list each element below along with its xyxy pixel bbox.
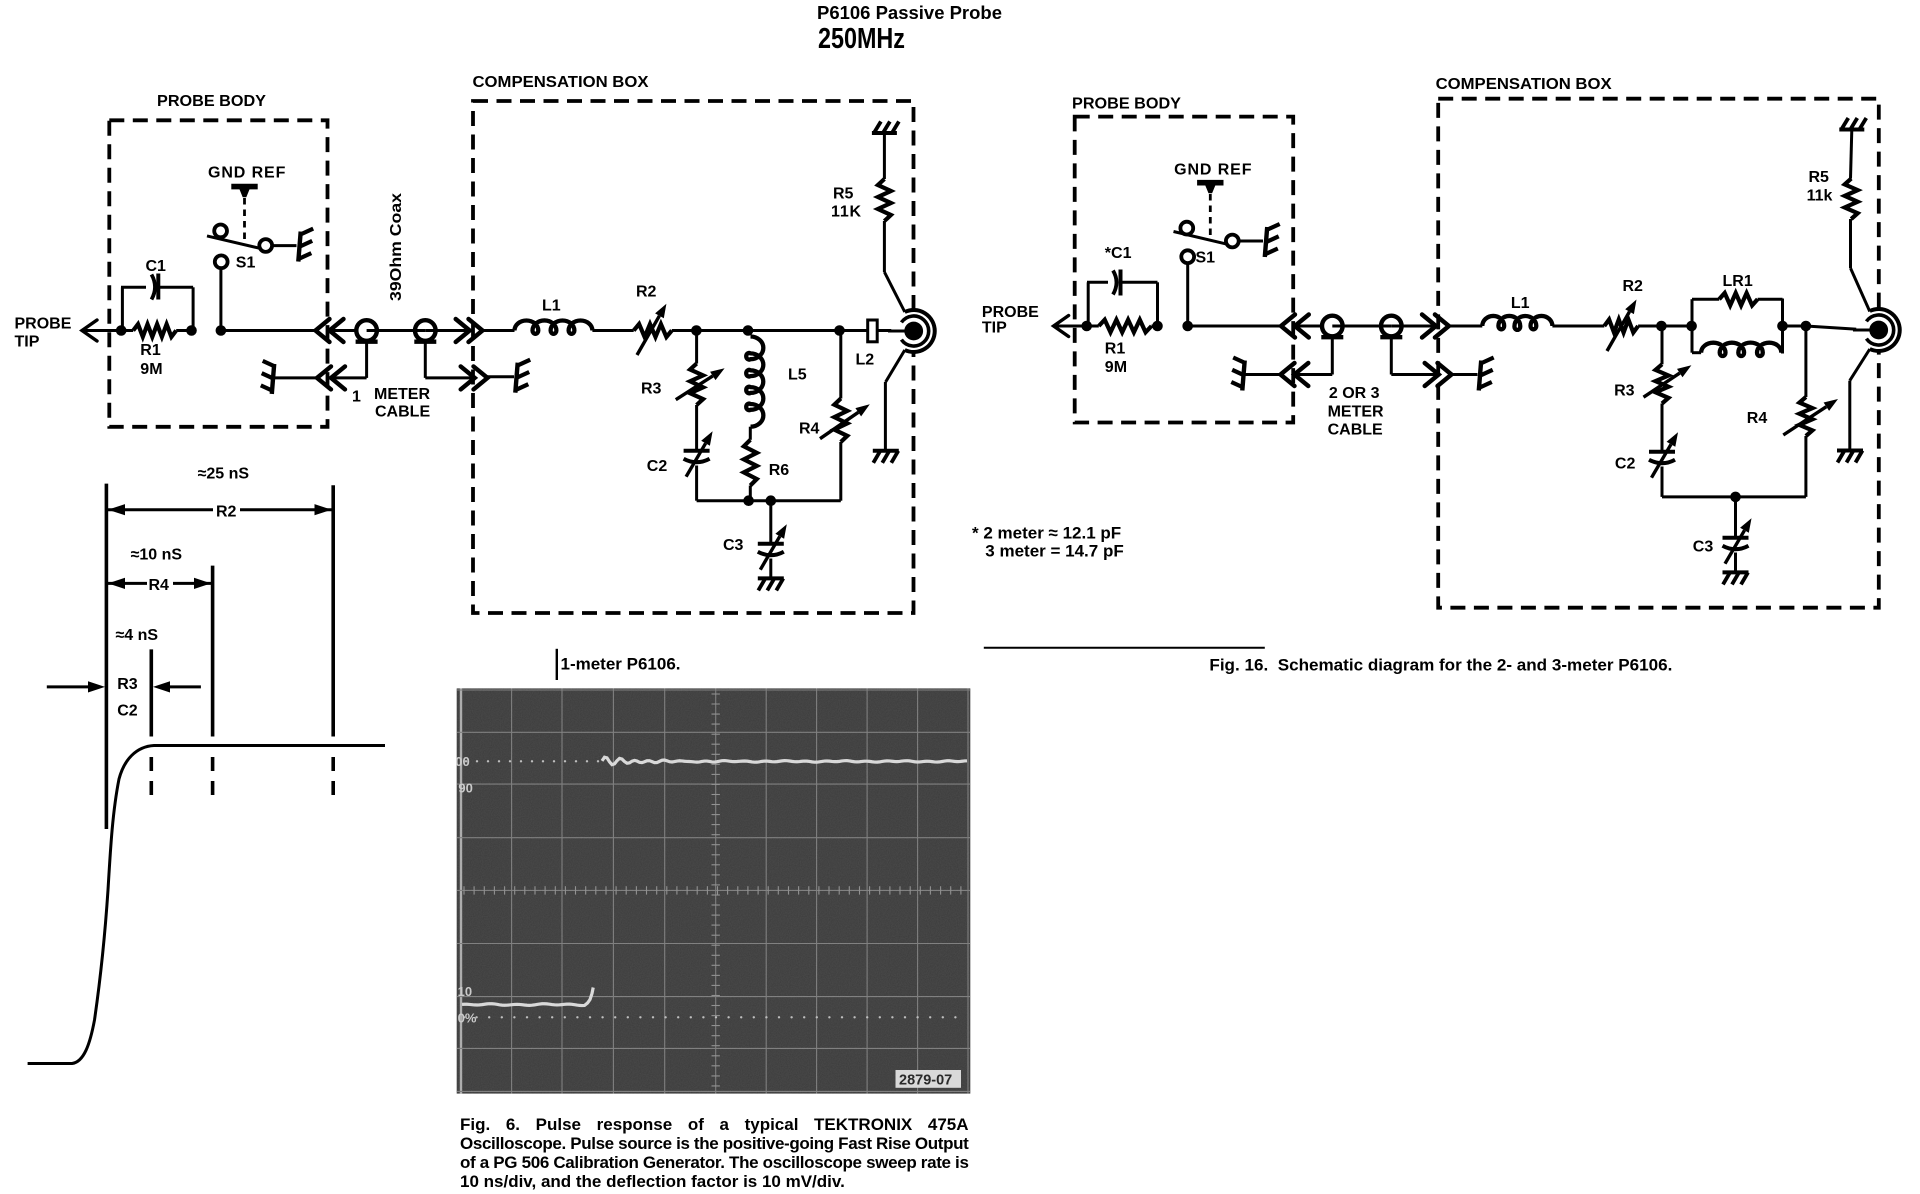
wire probe tip to R1 [82, 329, 121, 332]
resistor R5 11K [872, 131, 897, 135]
inductor L5 [746, 337, 763, 427]
timing: R4 line at 10nS [211, 566, 215, 737]
timing diagram: main edge reference line [105, 484, 109, 829]
svg-text:R1: R1 [1105, 341, 1126, 358]
waveform rising edge [28, 746, 385, 1064]
svg-text:R2: R2 [216, 504, 237, 521]
wire R5 to BNC [884, 272, 904, 312]
resistor R6 [749, 427, 752, 440]
bottom bus wire [697, 499, 841, 502]
caption Fig 6 line 3 [460, 1153, 969, 1172]
variable capacitor C3 [769, 501, 772, 544]
ferrite bead L2 [840, 329, 905, 332]
caption Fig 6 line 2 [460, 1134, 968, 1153]
probe body box (1-meter) [109, 120, 327, 427]
wire R5 to BNC (right) [1851, 268, 1870, 311]
timing: R3/C2 line at 4nS [150, 649, 154, 736]
svg-text:COMPENSATION BOX: COMPENSATION BOX [473, 74, 649, 91]
probe body box (2/3-meter) [1075, 117, 1294, 423]
ground (BNC) [886, 350, 905, 382]
svg-text:C2: C2 [647, 458, 668, 475]
variable capacitor C3 (right) [1734, 497, 1737, 538]
timing: R2 line at 25nS [331, 485, 335, 736]
svg-text:L2: L2 [856, 352, 875, 369]
svg-text:R2: R2 [636, 284, 657, 301]
svg-text:L1: L1 [542, 298, 561, 315]
variable resistor R3 [695, 331, 698, 364]
svg-text:R3: R3 [117, 676, 138, 693]
wire [672, 329, 697, 332]
svg-text:L5: L5 [788, 367, 807, 384]
svg-text:R2: R2 [1623, 278, 1644, 295]
svg-text:9M: 9M [140, 361, 162, 378]
svg-text:C1: C1 [146, 258, 167, 275]
svg-text:PROBE BODY: PROBE BODY [157, 93, 266, 110]
svg-text:2 OR 3: 2 OR 3 [1329, 385, 1380, 402]
svg-text:PROBE BODY: PROBE BODY [1072, 96, 1181, 113]
svg-text:2879-07: 2879-07 [899, 1073, 952, 1089]
svg-text:*C1: *C1 [1105, 245, 1132, 262]
switch S1 [219, 269, 222, 331]
svg-text:R6: R6 [769, 462, 790, 479]
ground (C3 right) [1723, 570, 1749, 574]
svg-text:1-meter P6106.: 1-meter P6106. [561, 655, 681, 674]
svg-text:R4: R4 [1747, 410, 1768, 427]
svg-text:TIP: TIP [982, 320, 1007, 337]
svg-text:9M: 9M [1105, 359, 1127, 376]
svg-text:≈10 nS: ≈10 nS [131, 547, 183, 564]
variable capacitor C2 (right) [1661, 404, 1664, 452]
svg-text:11k: 11k [1807, 188, 1833, 205]
svg-text:METER: METER [374, 386, 430, 403]
variable resistor R2 (right) [1604, 320, 1638, 333]
ground (S1) [272, 244, 296, 247]
svg-text:1: 1 [352, 389, 361, 406]
svg-text:S1: S1 [236, 255, 256, 272]
svg-text:PROBE: PROBE [982, 304, 1039, 321]
connector chevrons right [456, 319, 470, 342]
capacitor *C1 [1087, 282, 1090, 326]
bottom bus (right) [1662, 495, 1806, 498]
connector chevrons left [316, 319, 330, 342]
svg-text:R1: R1 [140, 342, 161, 359]
dimension arrow R2 [108, 504, 125, 515]
variable resistor R4 (right) [1804, 326, 1807, 397]
coax connector 2 (right) [1381, 316, 1402, 337]
svg-text:GND REF: GND REF [1174, 162, 1252, 179]
wire [1332, 325, 1391, 328]
variable resistor R3 (right) [1661, 326, 1664, 364]
compensation box (2/3-meter) [1438, 99, 1879, 608]
switch S1 (right) [1186, 263, 1189, 326]
coax connector 2 [415, 320, 436, 341]
wire [592, 329, 633, 332]
svg-text:METER: METER [1328, 404, 1384, 421]
variable capacitor C2 [695, 405, 698, 451]
svg-text:R5: R5 [1809, 169, 1830, 186]
variable resistor R4 [839, 331, 842, 399]
wire L2 to BNC [888, 330, 905, 333]
caption Fig 6 line 4 [460, 1172, 845, 1191]
svg-text:3 meter = 14.7 pF: 3 meter = 14.7 pF [985, 542, 1123, 561]
svg-text:39Ohm Coax: 39Ohm Coax [388, 193, 405, 301]
svg-text:S1: S1 [1196, 250, 1216, 267]
svg-text:R5: R5 [833, 186, 854, 203]
coax connector 1 (right) [1322, 316, 1343, 337]
resistor R1 9M [121, 329, 133, 332]
variable resistor R2 [634, 324, 672, 337]
svg-text:≈25 nS: ≈25 nS [198, 466, 250, 483]
svg-text:TIP: TIP [15, 334, 40, 351]
svg-text:CABLE: CABLE [375, 404, 430, 421]
dimension arrow R4 [108, 578, 125, 589]
svg-text:LR1: LR1 [1723, 273, 1753, 290]
wire [1783, 325, 1806, 328]
svg-text:C2: C2 [1615, 456, 1636, 473]
svg-text:GND REF: GND REF [208, 165, 286, 182]
svg-text:R4: R4 [799, 421, 820, 438]
svg-text:C2: C2 [117, 703, 138, 720]
inductor L1 [483, 329, 515, 332]
svg-text:Fig. 16. Schematic diagram fo: Fig. 16. Schematic diagram for the 2- an… [1209, 656, 1672, 675]
wire to BNC (right) [1806, 326, 1869, 330]
svg-text:R3: R3 [641, 381, 662, 398]
connector chevrons [1281, 315, 1295, 338]
ground return row [272, 364, 274, 394]
svg-text:R4: R4 [149, 577, 170, 594]
compensation box (1-meter) [473, 101, 914, 613]
BNC connector [891, 309, 936, 354]
wire [1391, 325, 1436, 328]
svg-text:250MHz: 250MHz [818, 23, 905, 55]
svg-text:COMPENSATION BOX: COMPENSATION BOX [1436, 76, 1612, 93]
svg-text:C3: C3 [723, 537, 744, 554]
svg-text:C3: C3 [1693, 539, 1714, 556]
wire [1552, 325, 1604, 328]
rule above Fig 16 [984, 647, 1265, 649]
ground (S1 right) [1239, 240, 1263, 243]
wire [1054, 325, 1087, 328]
svg-text:CABLE: CABLE [1328, 422, 1383, 439]
caption fragment: 1-meter P6106 [556, 649, 558, 680]
coax connector 1 [356, 320, 377, 341]
svg-text:* 2 meter ≈ 12.1 pF: * 2 meter ≈ 12.1 pF [972, 524, 1121, 543]
connector chevrons [1422, 315, 1436, 338]
ground (C3) [758, 576, 784, 580]
dimension arrows R3 C2 [47, 685, 90, 688]
wire [367, 329, 426, 332]
wire [1295, 325, 1322, 328]
caption Fig 6 line 1 [460, 1115, 969, 1134]
svg-text:≈4 nS: ≈4 nS [116, 627, 159, 644]
svg-text:R3: R3 [1614, 383, 1635, 400]
wire to BNC dot (right) [1853, 329, 1870, 332]
svg-text:P6106 Passive Probe: P6106 Passive Probe [817, 3, 1002, 23]
wire to cable (right) [1188, 325, 1281, 328]
resistor R5 11k (right) [1839, 128, 1864, 132]
svg-text:11K: 11K [831, 204, 862, 221]
parallel network LR1 [1691, 299, 1694, 353]
ground (BNC right) [1850, 349, 1870, 381]
svg-text:L1: L1 [1511, 295, 1530, 312]
wire [1638, 325, 1661, 328]
BNC connector (right) [1856, 308, 1901, 353]
inductor L1 (right) [1449, 325, 1482, 328]
resistor R1 9M (right) [1087, 325, 1099, 328]
ground return row (right) [1242, 361, 1244, 391]
capacitor C1 [121, 287, 124, 330]
svg-text:PROBE: PROBE [15, 316, 72, 333]
wire [425, 329, 469, 332]
wire to cable [221, 329, 316, 332]
wire [330, 329, 357, 332]
